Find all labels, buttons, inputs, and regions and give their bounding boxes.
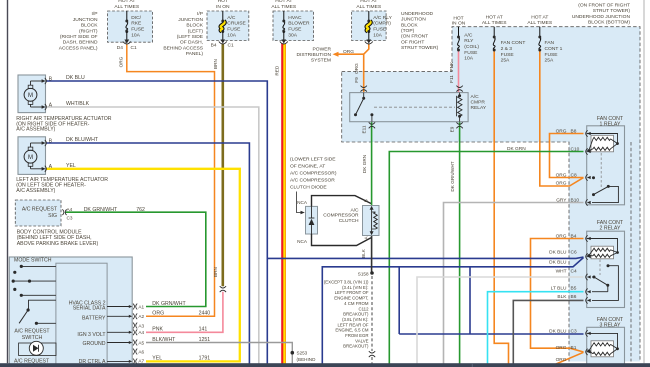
svg-text:OF RIGHT: OF RIGHT bbox=[401, 39, 424, 45]
svg-text:DISTRIBUTION: DISTRIBUTION bbox=[296, 52, 331, 58]
svg-text:(3.4L (VIN E):: (3.4L (VIN E): bbox=[342, 285, 368, 290]
svg-text:RKE: RKE bbox=[131, 21, 142, 27]
svg-text:RED: RED bbox=[274, 65, 279, 76]
svg-text:JUNCTION: JUNCTION bbox=[401, 17, 426, 23]
svg-text:FUSE: FUSE bbox=[464, 50, 478, 56]
svg-text:ORG: ORG bbox=[354, 63, 359, 74]
svg-text:4 CM FROM: 4 CM FROM bbox=[344, 301, 369, 306]
svg-text:BLOCK: BLOCK bbox=[186, 23, 203, 29]
svg-text:(LEFT): (LEFT) bbox=[188, 28, 204, 34]
svg-text:2 & 3: 2 & 3 bbox=[501, 46, 513, 52]
svg-text:1251: 1251 bbox=[199, 337, 211, 343]
svg-text:(LEFT SIDE: (LEFT SIDE bbox=[177, 34, 204, 40]
svg-text:HOT AT: HOT AT bbox=[531, 15, 548, 21]
svg-text:DK GRN: DK GRN bbox=[362, 155, 367, 173]
svg-text:A: A bbox=[49, 164, 53, 170]
svg-text:B: B bbox=[49, 76, 53, 82]
svg-text:UNDERHOOD: UNDERHOOD bbox=[401, 11, 434, 17]
svg-text:(BEHIND: (BEHIND bbox=[297, 357, 317, 362]
svg-text:DK BLU: DK BLU bbox=[66, 75, 85, 81]
svg-text:ORG: ORG bbox=[556, 172, 567, 178]
svg-text:JUNCTION: JUNCTION bbox=[178, 17, 203, 23]
svg-text:B: B bbox=[363, 199, 368, 202]
svg-text:BREAKOUT): BREAKOUT) bbox=[343, 312, 369, 317]
svg-text:HVAC: HVAC bbox=[288, 15, 302, 21]
svg-text:A/C COMPRESSOR): A/C COMPRESSOR) bbox=[290, 170, 337, 176]
svg-text:BRN: BRN bbox=[213, 267, 218, 277]
svg-text:ALL TIMES: ALL TIMES bbox=[356, 4, 381, 10]
svg-text:S158: S158 bbox=[358, 271, 369, 276]
svg-text:SWITCH: SWITCH bbox=[22, 335, 43, 341]
svg-text:S253: S253 bbox=[297, 351, 308, 356]
svg-text:(ON FRONT OF RIGHT: (ON FRONT OF RIGHT bbox=[578, 3, 630, 9]
svg-text:A/C: A/C bbox=[227, 15, 236, 21]
svg-text:141: 141 bbox=[199, 327, 208, 333]
svg-text:I/P: I/P bbox=[197, 11, 203, 17]
svg-text:DK GRN/WHT: DK GRN/WHT bbox=[84, 207, 118, 213]
svg-text:BEHIND ACCESS: BEHIND ACCESS bbox=[163, 45, 203, 51]
svg-text:DASH, BEHIND: DASH, BEHIND bbox=[63, 40, 98, 46]
svg-text:RELAY: RELAY bbox=[471, 105, 487, 111]
svg-text:SYSTEM: SYSTEM bbox=[311, 58, 331, 64]
svg-text:PANEL): PANEL) bbox=[186, 51, 204, 57]
svg-text:(EXCEPT 3.8L (VIN 1)): (EXCEPT 3.8L (VIN 1)) bbox=[324, 280, 369, 285]
svg-text:A: A bbox=[49, 102, 53, 108]
svg-text:COMPRESSOR: COMPRESSOR bbox=[323, 213, 359, 219]
svg-text:OF ENGINE, AT: OF ENGINE, AT bbox=[290, 163, 325, 169]
svg-text:C10: C10 bbox=[571, 146, 580, 152]
svg-text:(TOP): (TOP) bbox=[401, 28, 415, 34]
svg-text:HOT AT: HOT AT bbox=[118, 0, 135, 4]
svg-text:(RIGHT): (RIGHT) bbox=[79, 28, 98, 34]
svg-text:YEL: YEL bbox=[152, 356, 162, 362]
svg-text:A/C: A/C bbox=[464, 32, 473, 38]
svg-text:1791: 1791 bbox=[199, 356, 211, 362]
svg-text:A3: A3 bbox=[138, 323, 144, 328]
svg-text:HOT AT: HOT AT bbox=[360, 0, 377, 4]
svg-text:FROM EGR: FROM EGR bbox=[345, 333, 368, 338]
svg-text:A2: A2 bbox=[138, 314, 144, 319]
svg-text:A/C ASSEMBLY): A/C ASSEMBLY) bbox=[16, 188, 55, 194]
svg-text:HOT: HOT bbox=[218, 0, 228, 4]
svg-text:FAN: FAN bbox=[545, 40, 555, 46]
svg-text:IGN 3 VOLT: IGN 3 VOLT bbox=[77, 332, 106, 338]
svg-text:BREAKOUT): BREAKOUT) bbox=[343, 344, 369, 349]
svg-text:A/C: A/C bbox=[350, 207, 359, 213]
svg-text:GRY: GRY bbox=[556, 197, 567, 203]
svg-text:DK BLU/WHT: DK BLU/WHT bbox=[66, 137, 99, 143]
svg-text:LEFT REAR OF: LEFT REAR OF bbox=[337, 322, 368, 327]
svg-text:LEFT FRONT OF: LEFT FRONT OF bbox=[335, 290, 369, 295]
svg-text:ABOVE PARKING BRAKE LEVER): ABOVE PARKING BRAKE LEVER) bbox=[17, 241, 99, 247]
svg-text:FUSE: FUSE bbox=[545, 52, 559, 58]
svg-text:STRUT TOWER): STRUT TOWER) bbox=[401, 45, 439, 51]
svg-text:F9: F9 bbox=[354, 77, 359, 83]
svg-text:A4: A4 bbox=[138, 330, 144, 335]
svg-text:VALVE: VALVE bbox=[355, 338, 368, 343]
svg-text:C6: C6 bbox=[571, 249, 577, 255]
svg-text:MODE SWITCH: MODE SWITCH bbox=[14, 258, 52, 264]
svg-text:CONT 1: CONT 1 bbox=[545, 46, 563, 52]
svg-text:10A: 10A bbox=[227, 33, 236, 39]
svg-text:C3: C3 bbox=[571, 328, 577, 334]
svg-text:(3.8L (VIN K):: (3.8L (VIN K): bbox=[342, 317, 368, 322]
svg-text:IN ON: IN ON bbox=[452, 21, 466, 27]
svg-text:ALL TIMES: ALL TIMES bbox=[482, 20, 507, 26]
svg-text:A1: A1 bbox=[138, 304, 144, 309]
svg-text:A/C REQUEST: A/C REQUEST bbox=[14, 328, 50, 334]
svg-text:A7: A7 bbox=[138, 358, 144, 363]
svg-text:DK GRN/WHT: DK GRN/WHT bbox=[152, 301, 186, 307]
svg-text:ALL TIMES: ALL TIMES bbox=[114, 4, 139, 10]
svg-text:SIG: SIG bbox=[48, 213, 57, 219]
svg-text:ALL TIMES: ALL TIMES bbox=[527, 20, 552, 26]
svg-text:ENGINE, 6.5 CM: ENGINE, 6.5 CM bbox=[335, 328, 368, 333]
svg-text:A/C REQUEST: A/C REQUEST bbox=[22, 207, 58, 213]
svg-text:M: M bbox=[28, 93, 33, 99]
svg-text:CLUTCH DIODE: CLUTCH DIODE bbox=[290, 184, 327, 190]
svg-text:ORG: ORG bbox=[343, 49, 354, 55]
svg-text:DK GRN/WHT: DK GRN/WHT bbox=[450, 161, 455, 191]
svg-text:B6: B6 bbox=[571, 294, 577, 300]
svg-text:FUSE: FUSE bbox=[501, 52, 515, 58]
svg-text:UNDERHOOD JUNCTION: UNDERHOOD JUNCTION bbox=[572, 14, 631, 20]
svg-text:DK BLU: DK BLU bbox=[549, 328, 567, 334]
svg-text:BLOWER: BLOWER bbox=[288, 21, 310, 27]
svg-text:WHT: WHT bbox=[556, 268, 567, 274]
svg-text:STRUT TOWER): STRUT TOWER) bbox=[593, 8, 631, 14]
svg-text:(ON FRONT: (ON FRONT bbox=[401, 34, 428, 40]
svg-text:BRN: BRN bbox=[213, 59, 218, 69]
svg-text:ORG: ORG bbox=[556, 357, 567, 363]
svg-text:BLOCK (BOTTOM): BLOCK (BOTTOM) bbox=[588, 20, 630, 26]
svg-text:JUNCTION: JUNCTION bbox=[73, 17, 98, 23]
svg-text:B4: B4 bbox=[211, 43, 217, 49]
svg-text:(LOWER LEFT SIDE: (LOWER LEFT SIDE bbox=[290, 156, 336, 162]
svg-text:A/C ASSEMBLY): A/C ASSEMBLY) bbox=[16, 127, 55, 133]
svg-text:C1: C1 bbox=[131, 45, 137, 51]
svg-text:WHT/BLK: WHT/BLK bbox=[66, 101, 90, 107]
svg-text:ORG: ORG bbox=[556, 128, 567, 134]
svg-text:(RIGHT SIDE OF: (RIGHT SIDE OF bbox=[60, 34, 98, 40]
svg-text:ORG: ORG bbox=[556, 181, 567, 187]
svg-text:FUSE: FUSE bbox=[227, 27, 241, 33]
svg-text:E11: E11 bbox=[361, 125, 366, 133]
svg-text:30A: 30A bbox=[288, 33, 297, 39]
svg-text:LT BLU: LT BLU bbox=[551, 286, 567, 292]
svg-text:C4: C4 bbox=[571, 268, 577, 274]
svg-text:ORG: ORG bbox=[556, 345, 567, 351]
svg-text:B10: B10 bbox=[571, 197, 580, 203]
svg-text:OF DASH,: OF DASH, bbox=[180, 40, 203, 46]
svg-text:CRUISE: CRUISE bbox=[227, 21, 246, 27]
svg-text:25A: 25A bbox=[545, 58, 554, 64]
svg-text:BLK: BLK bbox=[557, 294, 567, 300]
svg-text:POWER: POWER bbox=[313, 46, 332, 52]
svg-text:ENGINE COMPT,: ENGINE COMPT, bbox=[334, 296, 368, 301]
svg-text:A/C COMPRESSOR: A/C COMPRESSOR bbox=[290, 177, 335, 183]
svg-text:DK BLU: DK BLU bbox=[549, 249, 567, 255]
svg-text:C112: C112 bbox=[358, 306, 369, 311]
svg-text:1 RELAY: 1 RELAY bbox=[600, 121, 621, 127]
svg-text:762: 762 bbox=[136, 207, 145, 213]
svg-text:FUSE: FUSE bbox=[373, 27, 387, 33]
svg-text:ORG: ORG bbox=[556, 233, 567, 239]
svg-text:DK BLU: DK BLU bbox=[549, 260, 567, 266]
svg-text:BLOCK: BLOCK bbox=[401, 22, 418, 28]
svg-text:(COIL): (COIL) bbox=[464, 44, 479, 50]
svg-text:B1: B1 bbox=[571, 345, 577, 351]
svg-text:ORG: ORG bbox=[152, 311, 164, 317]
svg-text:BLK: BLK bbox=[361, 248, 366, 258]
svg-text:FAN CONT: FAN CONT bbox=[501, 40, 526, 46]
svg-text:HOT AT: HOT AT bbox=[486, 15, 503, 21]
svg-text:B4: B4 bbox=[571, 233, 577, 239]
svg-text:PNK: PNK bbox=[449, 61, 454, 72]
svg-text:C8: C8 bbox=[571, 172, 577, 178]
svg-text:2440: 2440 bbox=[199, 311, 211, 317]
svg-text:A/C RLY: A/C RLY bbox=[373, 15, 392, 21]
svg-text:YEL: YEL bbox=[66, 163, 76, 169]
svg-text:A/C: A/C bbox=[471, 94, 480, 100]
svg-text:10A: 10A bbox=[131, 33, 140, 39]
svg-text:ORG: ORG bbox=[119, 56, 124, 67]
svg-text:NCA: NCA bbox=[297, 239, 308, 244]
svg-text:F11: F11 bbox=[449, 75, 454, 83]
svg-text:(CMPR): (CMPR) bbox=[373, 21, 391, 27]
svg-text:3 RELAY: 3 RELAY bbox=[600, 322, 621, 328]
svg-text:B: B bbox=[49, 138, 53, 144]
svg-text:GROUND: GROUND bbox=[82, 341, 105, 347]
svg-text:C3: C3 bbox=[67, 215, 73, 220]
svg-text:10A: 10A bbox=[373, 33, 382, 39]
svg-text:BLOCK: BLOCK bbox=[81, 23, 98, 29]
svg-text:FUSE: FUSE bbox=[288, 27, 302, 33]
svg-text:BATTERY: BATTERY bbox=[82, 315, 106, 321]
svg-text:HOT AT: HOT AT bbox=[275, 0, 292, 4]
svg-text:ACCESS PANEL): ACCESS PANEL) bbox=[59, 45, 98, 51]
svg-text:DIC/: DIC/ bbox=[131, 15, 141, 21]
svg-text:D4: D4 bbox=[117, 45, 123, 51]
svg-text:C1: C1 bbox=[228, 43, 234, 49]
svg-text:10A: 10A bbox=[464, 56, 473, 62]
svg-text:I/P: I/P bbox=[92, 11, 98, 17]
svg-text:DK GRN: DK GRN bbox=[507, 146, 526, 152]
svg-text:B8: B8 bbox=[571, 128, 577, 134]
svg-text:E9: E9 bbox=[449, 126, 454, 132]
svg-text:25A: 25A bbox=[501, 58, 510, 64]
svg-text:ALL TIMES: ALL TIMES bbox=[271, 4, 296, 10]
svg-text:2 RELAY: 2 RELAY bbox=[600, 225, 621, 231]
svg-text:BLK/WHT: BLK/WHT bbox=[152, 337, 176, 343]
svg-text:B5: B5 bbox=[571, 286, 577, 292]
svg-text:A5: A5 bbox=[138, 340, 144, 345]
svg-text:SERIAL DATA: SERIAL DATA bbox=[73, 306, 106, 312]
svg-text:CMPR: CMPR bbox=[471, 99, 486, 105]
svg-text:A4: A4 bbox=[67, 207, 73, 212]
svg-text:NCA: NCA bbox=[297, 200, 308, 205]
svg-text:PNK: PNK bbox=[152, 327, 163, 333]
svg-text:M: M bbox=[28, 155, 33, 161]
svg-text:CLUTCH: CLUTCH bbox=[339, 218, 359, 224]
svg-text:A6: A6 bbox=[138, 349, 144, 354]
svg-text:IN ON: IN ON bbox=[216, 4, 230, 10]
svg-text:HOT: HOT bbox=[453, 15, 463, 21]
svg-text:RLY: RLY bbox=[464, 38, 474, 44]
svg-text:FUSE: FUSE bbox=[131, 27, 145, 33]
